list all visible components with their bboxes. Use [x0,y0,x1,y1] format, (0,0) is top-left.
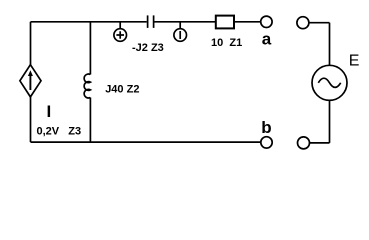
wire source bottom vertical [329,100,331,143]
wire source top horizontal [309,22,330,24]
wire left vertical lower [30,97,32,142]
svg-text:I: I [47,102,52,121]
terminal b [261,137,272,148]
wire bottom rail [31,141,261,143]
wire middle vertical upper [89,22,91,75]
resistor Z1 [216,16,234,29]
svg-text:b: b [261,118,271,137]
terminal source bottom [298,137,310,149]
svg-text:10 Z1: 10 Z1 [211,37,242,49]
inductor Z2 coil [84,74,90,98]
polarity marker plus circle [114,22,127,42]
wire source top vertical [329,23,331,66]
wire left vertical upper [30,22,32,65]
svg-text:-J2 Z3: -J2 Z3 [132,42,164,54]
wire top rail middle segment [154,21,215,23]
wire source bottom horizontal [310,142,330,144]
terminal a [261,16,272,27]
terminal source top [297,17,309,29]
wire top rail left segment [31,21,147,23]
wire middle vertical lower [89,98,91,143]
dependent source I (diamond) [20,65,41,97]
svg-text:0,2V Z3: 0,2V Z3 [37,125,82,137]
svg-text:E: E [349,52,360,69]
AC source E [312,65,347,100]
wire top rail right segment [234,21,261,23]
current marker circle [174,22,187,42]
svg-text:J40 Z2: J40 Z2 [105,83,139,95]
capacitor -J2 Z3 [148,15,154,28]
svg-text:a: a [262,29,272,48]
